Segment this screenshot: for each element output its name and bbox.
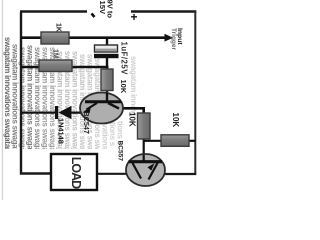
svg-text:10K: 10K bbox=[171, 113, 180, 128]
diode D1 1N4148 cathode bar bbox=[55, 106, 58, 119]
Q1 base lead inside body bbox=[106, 93, 108, 102]
resistor R2 bbox=[39, 60, 72, 72]
wire: R4 to right rail bbox=[188, 140, 196, 142]
Q2 emitter diagonal with arrow bbox=[149, 163, 158, 180]
svg-text:+: + bbox=[130, 10, 137, 24]
wire: top positive rail right segment bbox=[131, 10, 196, 12]
wire: top positive rail left segment bbox=[20, 10, 87, 12]
wire: input trigger line bbox=[21, 36, 166, 39]
wire: BC557 collector to right rail bbox=[161, 173, 196, 175]
svg-text:1N4148: 1N4148 bbox=[57, 118, 66, 144]
capacitor C1 1uF/25V plate top bbox=[95, 45, 118, 52]
diode D1 triangle bbox=[59, 106, 72, 119]
svg-text:Trigger: Trigger bbox=[170, 28, 177, 51]
svg-text:1uF/25V: 1uF/25V bbox=[120, 42, 129, 76]
svg-text:1M: 1M bbox=[52, 49, 59, 59]
Q1 base bar bbox=[85, 100, 121, 103]
Q1 emitter with arrow bbox=[87, 103, 98, 110]
wire: right rail bbox=[194, 11, 196, 174]
resistor R4 10K horizontal bbox=[161, 135, 189, 147]
transistor Q2 BC557 body bbox=[126, 154, 165, 186]
svg-text:15V: 15V bbox=[98, 1, 107, 15]
wire: left supply rail + wire to LOAD bbox=[21, 12, 51, 174]
capacitor C1 plate bottom bbox=[94, 54, 119, 58]
svg-text:10K: 10K bbox=[128, 112, 137, 127]
wire: diode row (emitter line) bbox=[21, 111, 82, 113]
Q2 left diagonal (collector to LOAD) bbox=[133, 163, 142, 179]
svg-text:1K: 1K bbox=[55, 23, 62, 32]
LOAD box bbox=[51, 154, 97, 190]
Q2 base bar bbox=[129, 160, 163, 163]
wire: LOAD right to BC557 bbox=[97, 173, 128, 175]
resistor R3 10K vertical bbox=[138, 113, 151, 139]
transistor Q1 BC547 body bbox=[80, 93, 123, 124]
resistor R1 1K bbox=[41, 32, 69, 44]
Q2 base lead inside body bbox=[143, 155, 145, 162]
svg-text:10K: 10K bbox=[119, 80, 128, 94]
left edge scan streak bbox=[2, 0, 3, 200]
watermark swagatam innovations bbox=[3, 37, 138, 209]
node tick after rail gap bbox=[92, 14, 95, 18]
svg-text:LOAD: LOAD bbox=[69, 157, 83, 189]
wire: BC547 collector to R3 bbox=[118, 108, 144, 113]
resistor R5 10K vertical bbox=[101, 69, 113, 91]
wire: rail to R2 and R2 to cap node bbox=[21, 66, 109, 69]
svg-text:BC557: BC557 bbox=[117, 141, 124, 162]
Q1 collector diagonal bbox=[108, 103, 119, 109]
wire: cap vertical stubs bbox=[106, 37, 108, 102]
wire: base node to R4 bbox=[144, 140, 162, 142]
arrowhead input trigger bbox=[165, 34, 174, 42]
svg-text:BC547: BC547 bbox=[82, 112, 91, 134]
wire: R3 to BC557 base bbox=[143, 139, 145, 162]
